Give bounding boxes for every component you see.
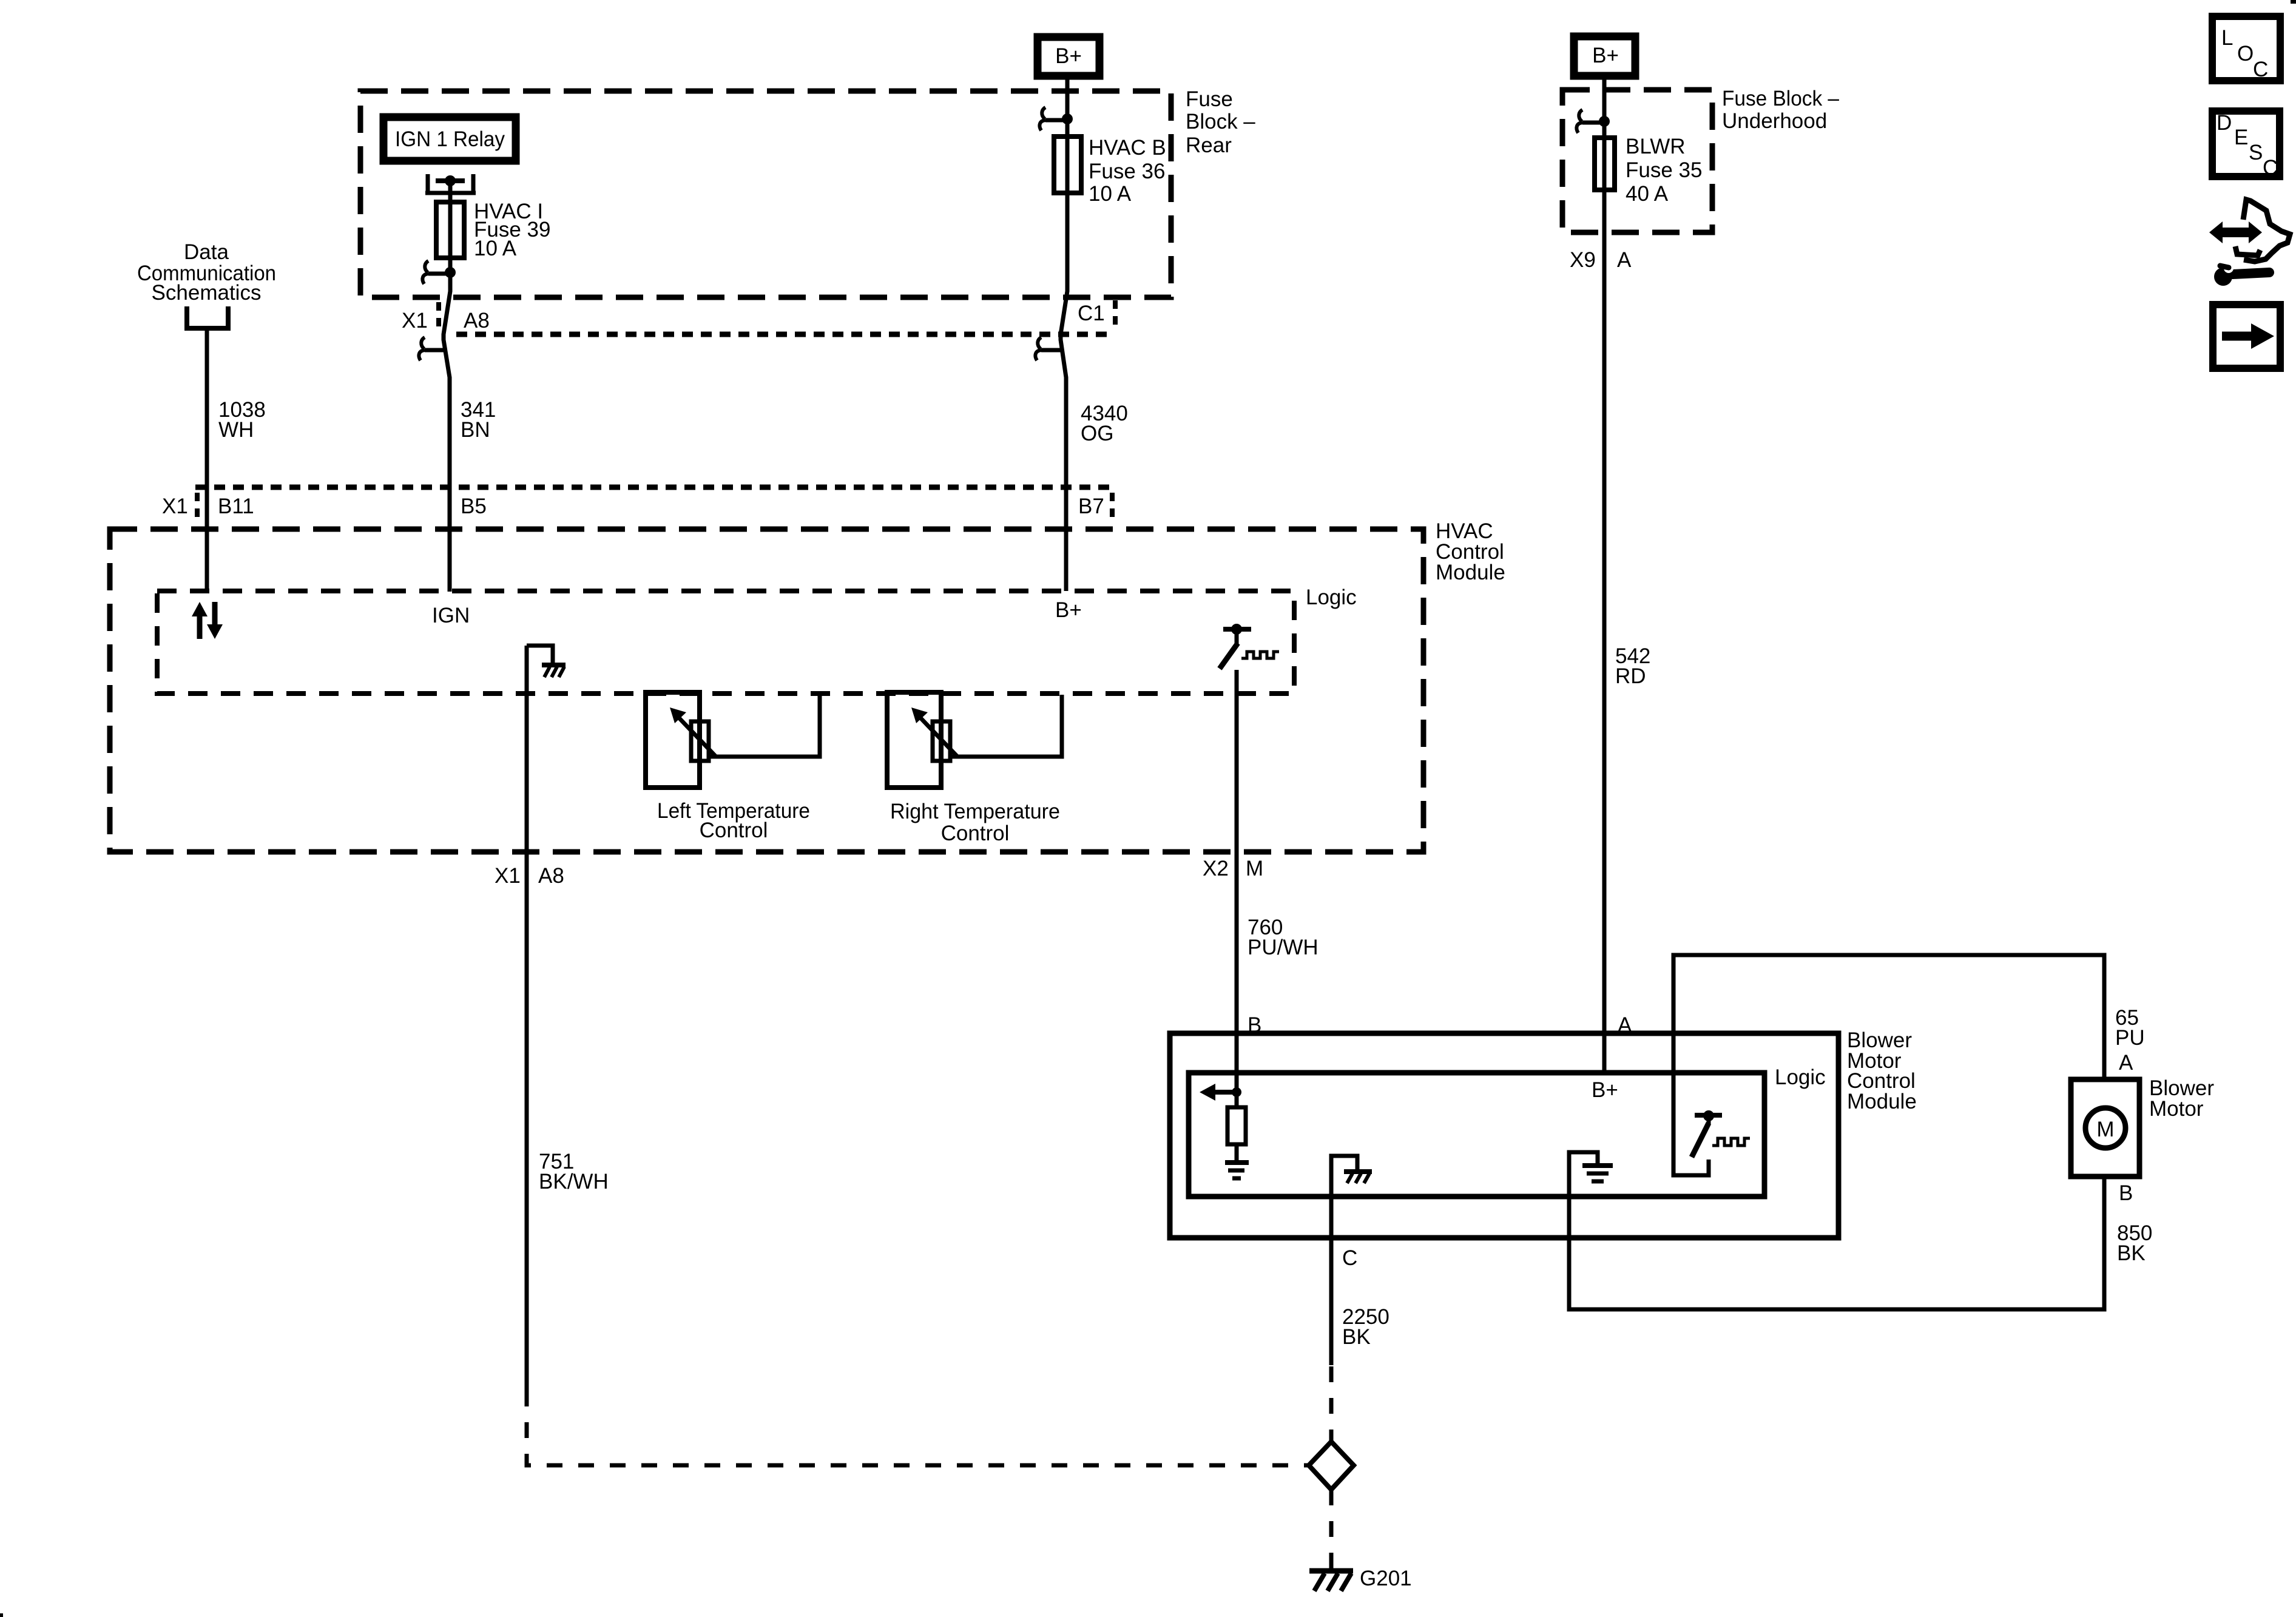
wire B+ to fuse 35 [1602,76,1607,138]
wire 751 BK/WH [525,646,529,1391]
B+ terminal rear [1038,37,1099,76]
svg-text:C: C [2253,58,2268,81]
svg-text:L: L [2221,26,2233,50]
data comm bracket [184,306,231,328]
wire label 850 BK [2117,1221,2152,1265]
connector X2 M labels [1203,857,1263,880]
wire label 4340 OG [1081,402,1128,445]
fuse block underhood label [1722,87,1840,133]
wire 542 RD [1602,190,1607,1072]
svg-text:D: D [2217,111,2232,135]
connector hook fuse 35 [1576,110,1604,133]
svg-text:Module: Module [1847,1090,1917,1113]
svg-text:BN: BN [461,418,490,442]
svg-text:Motor: Motor [2149,1097,2204,1121]
svg-text:40 A: 40 A [1626,182,1669,206]
wire to G201 dashed [1329,1490,1334,1568]
fuse block underhood dashed box [1562,90,1712,232]
wire label 542 RD [1615,644,1650,688]
svg-text:Fuse 35: Fuse 35 [1626,158,1702,182]
splice diamond [1309,1442,1354,1490]
svg-text:B7: B7 [1078,495,1104,518]
svg-text:X1: X1 [402,309,428,333]
svg-text:X2: X2 [1203,857,1229,880]
connector X1 B11 labels [162,493,254,522]
right temp control wire to logic [950,695,1062,757]
left temp control wire to logic [709,695,820,757]
wire label 751 BK/WH [539,1150,609,1193]
svg-text:A8: A8 [464,309,490,333]
HVAC logic dashed box [157,591,1294,694]
arrow icon box [2213,305,2280,368]
fuse F35 label [1626,135,1702,206]
svg-text:BK: BK [1342,1325,1371,1349]
fuse F35 [1595,138,1615,190]
svg-text:BK: BK [2117,1241,2146,1265]
blower motor label [2149,1076,2214,1121]
PWM signal symbol BMCM [1712,1138,1750,1146]
wire label 341 BN [461,398,496,442]
blower motor control module label [1847,1028,1917,1113]
svg-text:X1: X1 [162,495,188,518]
svg-text:Data: Data [184,240,229,264]
left temperature control [646,692,716,788]
svg-text:OG: OG [1081,422,1113,445]
switch contact and wire 65 PU to motor [1673,955,2104,1175]
svg-text:E: E [2234,126,2248,149]
earth ground motor return [1569,1152,1613,1197]
svg-text:O: O [2237,42,2254,66]
svg-text:Logic: Logic [1306,586,1357,609]
svg-text:Control: Control [700,819,768,842]
B+ terminal underhood [1574,36,1635,76]
svg-text:BK/WH: BK/WH [539,1170,609,1193]
blower motor M circle [2085,1108,2125,1148]
svg-text:Module: Module [1436,561,1505,584]
hand with double arrow and wrench icon [2209,200,2290,286]
svg-text:M: M [2096,1118,2114,1141]
svg-text:S: S [2249,141,2263,164]
connector row X1 B11 B5 B7 dotted line [195,485,1110,490]
junction dot below fuse 39 [445,267,456,278]
ground symbol HVAC internal [527,646,566,677]
left temperature control label [657,799,810,842]
svg-text:Schematics: Schematics [152,281,262,305]
svg-text:B11: B11 [218,495,254,518]
dotted connector line A8 C1 [456,332,1110,337]
C1 label [1078,300,1115,331]
connector hook lower A8 [419,337,445,360]
blower speed switch HVAC [1220,624,1251,669]
wire 341 BN [444,258,450,592]
svg-text:A: A [1617,248,1632,272]
svg-text:B+: B+ [1592,1078,1618,1102]
connector hook upper A8 [422,261,450,284]
svg-text:B+: B+ [1055,44,1082,68]
svg-text:A8: A8 [538,864,564,888]
pin B7 label [1078,493,1112,522]
G201 ground [1309,1571,1353,1591]
blower motor box [2071,1079,2139,1176]
serial data down arrow [207,602,223,639]
svg-text:B+: B+ [1055,598,1082,622]
svg-text:PU/WH: PU/WH [1248,936,1319,959]
connector hook fuse 36 [1039,107,1067,130]
wire label 760 PU/WH [1248,916,1319,959]
wire 2250 BK dashed to splice [1329,1366,1334,1442]
svg-text:Fuse: Fuse [1186,87,1233,111]
wire relay to fuse 39 [448,183,453,202]
svg-text:Control: Control [941,822,1010,845]
fuse block rear dashed box [360,91,1171,297]
right temperature control [887,692,957,788]
svg-text:C: C [1342,1246,1357,1270]
wire label 1038 WH [218,398,266,442]
relay socket bracket [425,174,476,193]
svg-text:10 A: 10 A [1089,182,1132,206]
HVAC control module label [1436,519,1505,584]
svg-text:PU: PU [2115,1026,2145,1050]
wire 760 PU/WH [1235,670,1239,1092]
connector hook lower C1 [1035,337,1062,360]
fuse F36 [1054,137,1081,193]
svg-text:B: B [2119,1181,2133,1205]
LOC icon box [2212,16,2280,81]
HVAC control module dashed box [110,529,1423,852]
right temperature control label [890,800,1060,845]
svg-text:G201: G201 [1360,1567,1412,1590]
Data Communication Schematics label [137,240,276,305]
fuse F39 [436,202,464,258]
svg-text:M: M [1246,857,1263,880]
fuse F36 label [1089,136,1166,206]
svg-text:C1: C1 [1078,302,1105,325]
connector X1 A8 labels [402,302,490,333]
wire label 65 PU [2115,1006,2145,1050]
svg-text:B5: B5 [461,495,487,518]
wire 751 BK/WH dashed to splice [527,1391,1309,1465]
svg-text:Underhood: Underhood [1722,109,1827,133]
svg-text:X1: X1 [495,864,521,888]
serial data up arrow [192,602,208,639]
connector X9 A labels [1570,248,1632,272]
wire label 2250 BK [1342,1305,1389,1349]
PWM signal symbol HVAC [1241,652,1279,658]
svg-text:IGN: IGN [432,604,470,627]
svg-text:Right Temperature: Right Temperature [890,800,1060,823]
connector X1 A8 lower labels [495,864,564,888]
blower control switch BMCM [1692,1110,1722,1157]
junction dot above fuse 36 [1062,113,1073,124]
IGN 1 Relay box [383,117,516,161]
svg-text:Logic: Logic [1775,1065,1826,1089]
svg-text:HVAC B: HVAC B [1089,136,1166,160]
svg-text:Rear: Rear [1186,133,1232,157]
wire 1038 WH [205,328,209,592]
BMCM logic box [1189,1073,1764,1197]
junction dot node 760 [1232,1087,1241,1097]
chassis ground node C [1331,1156,1372,1197]
stray mark top right [2291,0,2296,4]
junction dot above fuse 35 [1599,116,1610,127]
svg-text:WH: WH [218,418,254,442]
svg-text:Fuse Block –: Fuse Block – [1722,87,1840,110]
wire 4340 OG [1061,193,1067,591]
svg-text:Fuse 36: Fuse 36 [1089,160,1165,183]
signal arrow left [1200,1084,1237,1101]
stray mark bottom left [0,1613,3,1617]
wire B+ to fuse 36 [1065,76,1070,137]
resistor BMCM [1227,1092,1246,1161]
svg-text:Block –: Block – [1186,110,1255,133]
wire 2250 BK solid [1329,1197,1334,1365]
earth ground resistor [1225,1163,1249,1178]
svg-text:B+: B+ [1592,44,1619,67]
fuse F39 label [474,200,550,260]
svg-text:10 A: 10 A [474,237,517,260]
svg-text:A: A [2119,1051,2133,1075]
blower motor control module box [1170,1033,1838,1238]
svg-text:BLWR: BLWR [1626,135,1686,158]
wire motor return 850 BK [1569,1176,2104,1309]
svg-text:RD: RD [1615,664,1646,688]
svg-text:X9: X9 [1570,248,1596,272]
svg-text:C: C [2263,156,2278,180]
DESC icon box [2212,111,2280,180]
fuse block rear label [1186,87,1255,157]
svg-text:IGN 1 Relay: IGN 1 Relay [395,127,505,151]
